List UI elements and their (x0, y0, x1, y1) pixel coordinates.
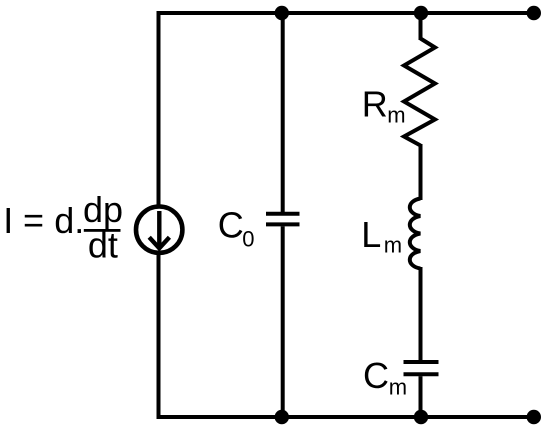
svg-text:L: L (361, 214, 381, 255)
svg-text:C: C (218, 205, 244, 246)
resistor Rm (404, 39, 435, 146)
svg-text:C: C (363, 355, 389, 396)
label C0 (218, 205, 255, 252)
node top right junction (414, 6, 428, 20)
svg-text:=: = (23, 200, 44, 241)
svg-text:0: 0 (242, 226, 254, 251)
node bottom terminal (527, 410, 541, 424)
node top terminal (527, 6, 541, 20)
label Rm (362, 83, 406, 127)
inductor Lm (410, 199, 421, 269)
label I = d.dp/dt (3, 189, 123, 266)
wire right branch bottom (419, 376, 423, 417)
wire middle branch upper (281, 13, 285, 212)
node bottom middle junction (275, 410, 289, 424)
wire right branch middle2 (419, 267, 423, 360)
wire top rail (157, 11, 535, 15)
label Cm (363, 355, 407, 399)
wire bottom rail (157, 415, 535, 419)
wire right branch middle1 (419, 144, 423, 200)
svg-text:m: m (384, 232, 402, 257)
current source I (136, 207, 182, 253)
node bottom right junction (414, 410, 428, 424)
wire left branch (157, 11, 161, 419)
svg-text:dt: dt (88, 225, 118, 266)
svg-text:I: I (3, 200, 13, 241)
node top middle junction (275, 6, 289, 20)
wire middle branch lower (281, 226, 285, 417)
svg-text:m: m (387, 102, 405, 127)
capacitor C0 (266, 214, 300, 225)
svg-text:R: R (362, 83, 388, 124)
label Lm (361, 214, 402, 257)
svg-text:m: m (389, 374, 407, 399)
wire right branch top (419, 13, 423, 40)
svg-text:d.: d. (54, 200, 84, 241)
capacitor Cm (404, 362, 439, 374)
